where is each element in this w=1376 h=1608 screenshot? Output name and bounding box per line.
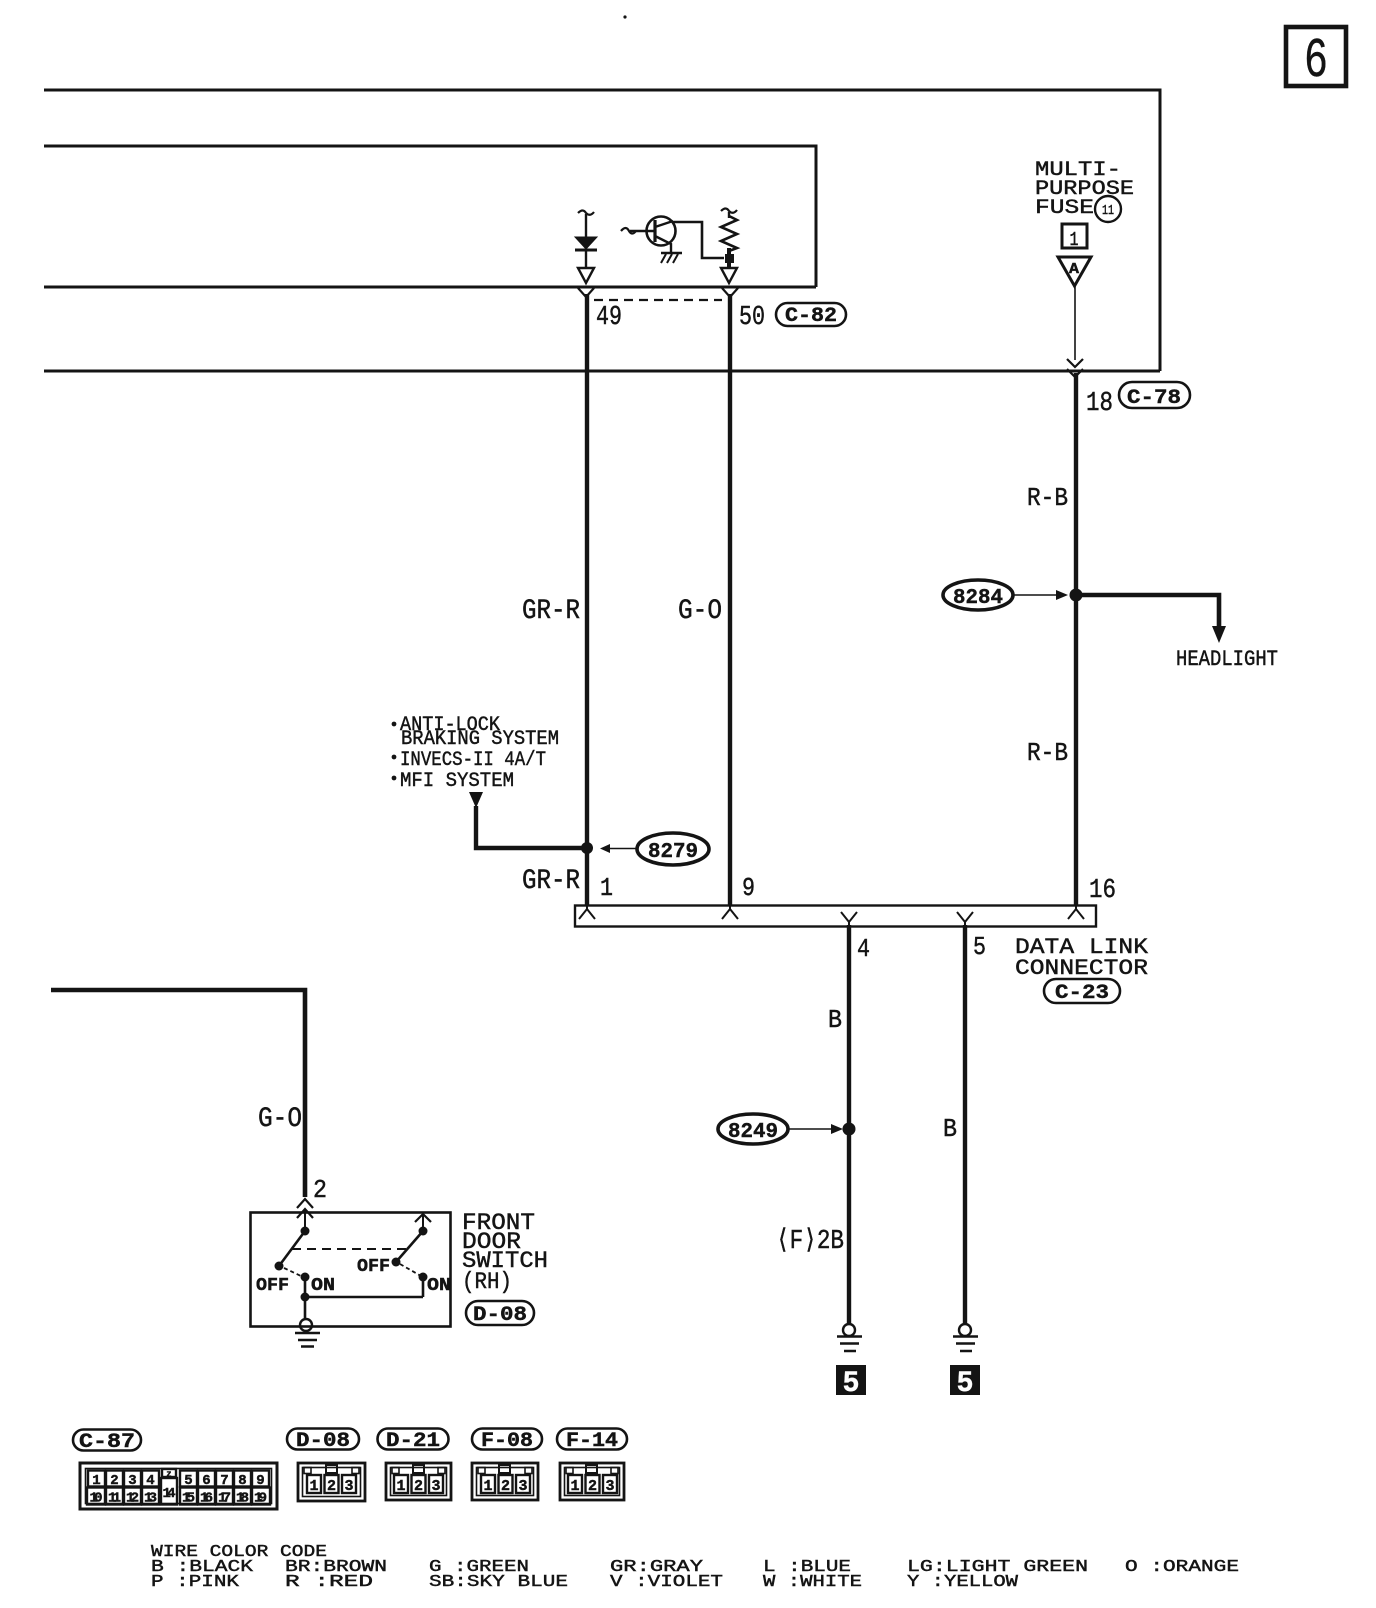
ground (wire 5) xyxy=(953,1324,978,1351)
svg-text:G-O: G-O xyxy=(258,1104,302,1135)
svg-text:1: 1 xyxy=(396,1478,405,1495)
wire G-O (pin 50 to pin 9) xyxy=(678,294,730,906)
wire R-B lower xyxy=(1027,595,1076,906)
front door switch label xyxy=(462,1210,548,1327)
svg-text:14: 14 xyxy=(163,1486,176,1502)
splice 8279 xyxy=(600,833,709,865)
svg-text:11: 11 xyxy=(1102,203,1114,219)
connector D-08 drawing xyxy=(298,1463,365,1501)
branch arrow to ABS systems xyxy=(469,792,593,854)
fuse terminal 1 xyxy=(1062,224,1087,251)
svg-text:1: 1 xyxy=(600,873,613,903)
dashed connector line xyxy=(594,299,722,301)
svg-text:C-78: C-78 xyxy=(1127,387,1181,410)
multi-purpose fuse label xyxy=(1035,159,1134,222)
diode xyxy=(575,211,597,269)
svg-text:8279: 8279 xyxy=(648,841,698,864)
svg-text:2: 2 xyxy=(110,1473,118,1489)
page number box 6 xyxy=(1286,27,1346,93)
svg-text:D-08: D-08 xyxy=(296,1430,350,1453)
svg-text:9: 9 xyxy=(256,1473,264,1489)
pin 1 xyxy=(579,873,613,919)
svg-text:F-08: F-08 xyxy=(481,1430,533,1453)
svg-text:1: 1 xyxy=(309,1478,318,1495)
svg-text:6: 6 xyxy=(1304,29,1328,93)
pin 50 fork xyxy=(722,288,765,333)
wire B (pin 4) xyxy=(828,925,849,1324)
wire GR-R (pin 49 to pin 1) xyxy=(522,294,587,906)
connector D-21 drawing xyxy=(386,1463,451,1500)
wire R-B upper xyxy=(1027,373,1076,595)
svg-text:11: 11 xyxy=(108,1491,121,1507)
resistor output arrow xyxy=(721,268,737,283)
svg-text:D-08: D-08 xyxy=(473,1304,527,1327)
ground ref 5 (wire 4) xyxy=(836,1365,866,1401)
connector F-14 drawing xyxy=(560,1463,624,1500)
wire color code row 2 xyxy=(151,1572,1018,1591)
svg-text:FUSE: FUSE xyxy=(1035,197,1094,220)
svg-text:5: 5 xyxy=(973,932,986,962)
svg-text:O :ORANGE: O :ORANGE xyxy=(1125,1557,1239,1576)
svg-text:V :VIOLET: V :VIOLET xyxy=(610,1572,723,1591)
pin 49 fork xyxy=(578,288,622,333)
svg-text:5: 5 xyxy=(957,1367,974,1401)
svg-text:2: 2 xyxy=(501,1478,510,1495)
svg-text:4: 4 xyxy=(146,1473,154,1489)
svg-text:⟨F⟩2B: ⟨F⟩2B xyxy=(776,1227,844,1257)
svg-text:MFI SYSTEM: MFI SYSTEM xyxy=(400,770,514,793)
svg-text:F-14: F-14 xyxy=(566,1430,618,1453)
svg-text:D-21: D-21 xyxy=(386,1430,440,1453)
svg-text:GR-R: GR-R xyxy=(522,866,580,897)
splice 8284 xyxy=(943,580,1083,610)
svg-text:1: 1 xyxy=(570,1478,579,1495)
svg-text:2: 2 xyxy=(588,1478,597,1495)
diode output arrow xyxy=(578,268,594,283)
svg-text:3: 3 xyxy=(431,1478,440,1495)
pin 2 chevrons xyxy=(297,1175,327,1231)
ground (door switch) xyxy=(295,1319,320,1347)
svg-text:OFF: OFF xyxy=(256,1276,289,1296)
front door switch box xyxy=(251,1213,451,1327)
svg-text:W :WHITE: W :WHITE xyxy=(763,1572,862,1591)
svg-text:19: 19 xyxy=(254,1491,267,1507)
left switch xyxy=(256,1227,335,1297)
svg-text:1: 1 xyxy=(1070,229,1079,251)
pin 18 label and connector C-78 xyxy=(1086,382,1190,419)
svg-text:18: 18 xyxy=(236,1491,249,1507)
svg-text:7: 7 xyxy=(220,1473,228,1489)
svg-text:ON: ON xyxy=(311,1276,335,1296)
splice 8249 xyxy=(718,1114,856,1144)
svg-text:3: 3 xyxy=(344,1478,353,1495)
svg-text:1: 1 xyxy=(92,1473,100,1489)
svg-text:CONNECTOR: CONNECTOR xyxy=(1015,956,1148,981)
wire label GR-R lower xyxy=(522,866,580,897)
svg-text:5: 5 xyxy=(184,1473,192,1489)
svg-text:6: 6 xyxy=(202,1473,210,1489)
svg-text:ON: ON xyxy=(427,1276,451,1296)
switch common wire xyxy=(301,1277,424,1318)
svg-text:16: 16 xyxy=(200,1491,213,1507)
data link connector label xyxy=(1015,935,1149,1005)
wire G-O to door switch xyxy=(51,990,305,1197)
connector label C-82 xyxy=(776,303,846,328)
pin 9 xyxy=(722,873,755,919)
svg-text:BRAKING SYSTEM: BRAKING SYSTEM xyxy=(401,728,559,751)
svg-text:C-23: C-23 xyxy=(1055,982,1109,1005)
svg-text:16: 16 xyxy=(1089,876,1116,906)
svg-text:(RH): (RH) xyxy=(462,1269,512,1295)
transistor xyxy=(621,217,676,253)
svg-text:2: 2 xyxy=(327,1478,336,1495)
svg-text:HEADLIGHT: HEADLIGHT xyxy=(1176,647,1278,672)
connector label F-08 xyxy=(472,1429,542,1454)
svg-text:10: 10 xyxy=(90,1491,103,1507)
connector label F-14 xyxy=(557,1429,627,1454)
ABS / INVECS / MFI note xyxy=(392,714,559,793)
fusible link triangle A xyxy=(1058,257,1091,286)
svg-text:5: 5 xyxy=(843,1367,860,1401)
svg-text:B: B xyxy=(943,1114,957,1144)
pin 18 double chevron xyxy=(1067,359,1083,377)
svg-text:12: 12 xyxy=(126,1491,139,1507)
connector C-87 drawing xyxy=(80,1463,277,1509)
svg-text:8: 8 xyxy=(238,1473,246,1489)
control unit outer box xyxy=(44,90,1160,371)
connector label C-87 xyxy=(73,1430,141,1455)
svg-text:R :RED: R :RED xyxy=(285,1572,373,1591)
svg-text:2: 2 xyxy=(414,1478,423,1495)
svg-text:3: 3 xyxy=(605,1478,614,1495)
right switch xyxy=(357,1214,451,1296)
svg-text:1: 1 xyxy=(483,1478,492,1495)
switch linkage dashed line xyxy=(292,1248,406,1250)
svg-text:17: 17 xyxy=(218,1491,231,1507)
svg-text:C-82: C-82 xyxy=(785,305,837,328)
ground (wire 4) xyxy=(837,1324,862,1351)
svg-text:GR-R: GR-R xyxy=(522,596,580,627)
svg-text:15: 15 xyxy=(182,1491,195,1507)
pin 5 xyxy=(957,912,986,962)
pin 16 xyxy=(1068,876,1116,919)
svg-text:R-B: R-B xyxy=(1027,483,1068,513)
headlight branch wire xyxy=(1076,595,1278,672)
connector F-08 drawing xyxy=(472,1463,538,1500)
wire B (pin 5) xyxy=(943,925,965,1324)
svg-text:18: 18 xyxy=(1086,389,1113,419)
svg-text:13: 13 xyxy=(144,1491,157,1507)
svg-text:P :PINK: P :PINK xyxy=(151,1572,239,1591)
svg-text:3: 3 xyxy=(128,1473,136,1489)
svg-text:8249: 8249 xyxy=(728,1121,778,1144)
svg-text:49: 49 xyxy=(596,303,622,333)
svg-text:2: 2 xyxy=(313,1175,327,1205)
svg-text:9: 9 xyxy=(742,873,755,903)
inner module box xyxy=(44,146,816,287)
speck xyxy=(623,15,626,18)
transistor emitter ground xyxy=(661,253,682,263)
ground ref 5 (wire 5) xyxy=(950,1365,980,1401)
svg-text:C-87: C-87 xyxy=(79,1431,135,1454)
svg-text:8284: 8284 xyxy=(953,587,1003,610)
svg-text:A: A xyxy=(1069,261,1079,278)
svg-text:4: 4 xyxy=(857,934,870,964)
resistor xyxy=(721,209,737,269)
svg-text:R-B: R-B xyxy=(1027,738,1068,768)
svg-text:B: B xyxy=(828,1005,842,1035)
svg-text:z: z xyxy=(166,1470,171,1480)
svg-text:G-O: G-O xyxy=(678,596,722,627)
svg-text:OFF: OFF xyxy=(357,1257,390,1277)
harness label (F)2B xyxy=(776,1227,844,1257)
wire color code heading xyxy=(151,1542,327,1561)
wire color code row 1 xyxy=(151,1557,1239,1576)
pin 4 xyxy=(841,912,870,964)
svg-text:3: 3 xyxy=(518,1478,527,1495)
svg-text:INVECS-II 4A/T: INVECS-II 4A/T xyxy=(400,749,546,772)
svg-text:Y :YELLOW: Y :YELLOW xyxy=(907,1572,1018,1591)
connector label D-21 xyxy=(378,1429,449,1454)
data link connector bar xyxy=(575,906,1096,927)
svg-text:SB:SKY BLUE: SB:SKY BLUE xyxy=(429,1572,568,1591)
collector wire to resistor xyxy=(672,222,724,258)
wire fuse to pin 18 xyxy=(1074,286,1076,360)
svg-text:50: 50 xyxy=(739,303,765,333)
connector label D-08 xyxy=(287,1429,359,1454)
